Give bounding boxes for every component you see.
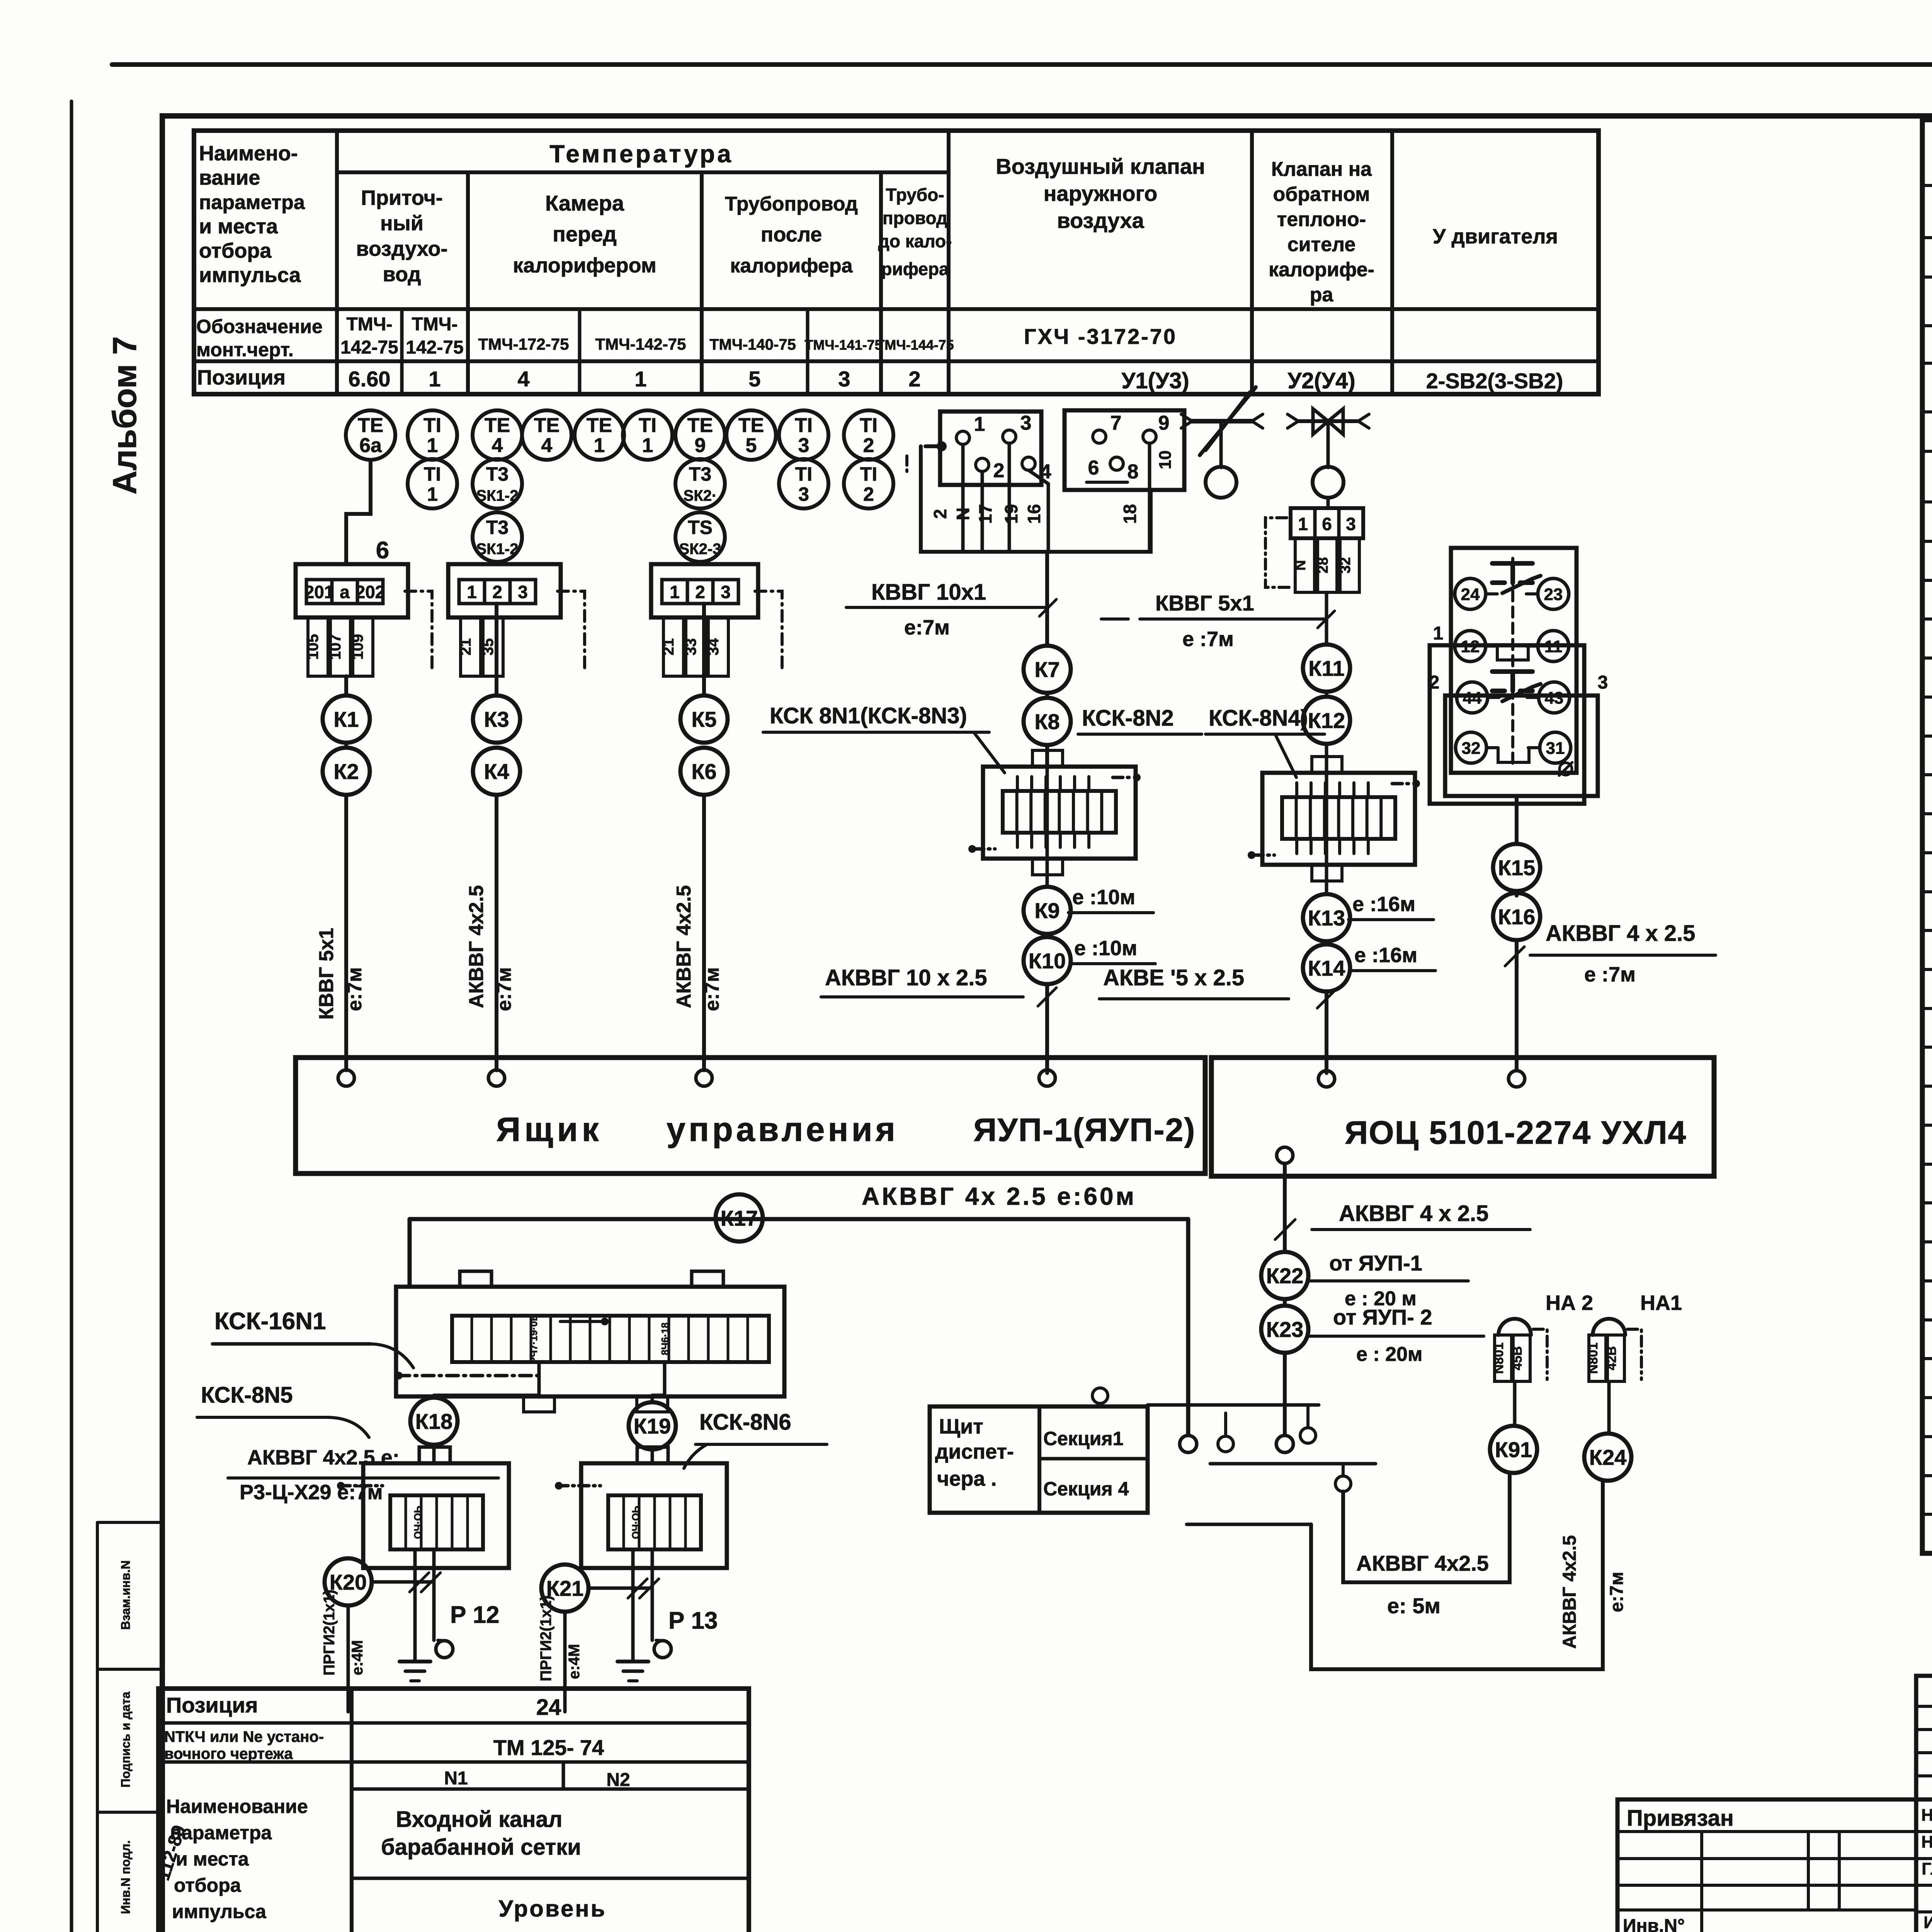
svg-text:SК1-2: SК1-2 — [476, 541, 519, 558]
svg-text:калорифером: калорифером — [513, 254, 656, 277]
svg-text:чера .: чера . — [937, 1467, 997, 1490]
connector lower bus outline — [907, 441, 1151, 646]
svg-text:ТМЧ-: ТМЧ- — [346, 314, 392, 335]
svg-text:21: 21 — [457, 638, 474, 656]
junction box KSK-8 N5 (drawing) — [337, 1447, 509, 1662]
svg-text:ТS: ТS — [688, 517, 713, 538]
svg-text:1: 1 — [429, 367, 440, 391]
svg-text:109: 109 — [349, 634, 366, 660]
ground (right) — [617, 1662, 648, 1681]
svg-text:43: 43 — [1545, 689, 1564, 707]
svg-text:Трубопровод: Трубопровод — [725, 193, 858, 215]
labels ot YaUP-1 e:20m — [1309, 1251, 1468, 1310]
svg-text:К2: К2 — [333, 759, 359, 784]
junction box KSK-8 N6 (drawing) — [555, 1447, 727, 1662]
signal lamp HA1 — [1586, 1291, 1682, 1434]
cable tag PRGI2(1x1) e:4m (right) — [537, 1595, 583, 1681]
svg-text:АКВВГ 10 х 2.5: АКВВГ 10 х 2.5 — [825, 965, 987, 990]
dispatcher board box — [930, 1406, 1148, 1513]
wire to K18 — [434, 1395, 539, 1463]
limit switch box — [1429, 548, 1608, 804]
label R 12 — [450, 1602, 500, 1628]
svg-text:201: 201 — [304, 582, 334, 602]
svg-text:АКВВГ 4 х 2.5: АКВВГ 4 х 2.5 — [1339, 1201, 1488, 1226]
junction box KSK-8 N1 (drawing) — [968, 745, 1141, 887]
svg-text:ТМЧ-144-75: ТМЧ-144-75 — [876, 337, 954, 353]
cable label AKVVG 10x2.5 — [821, 965, 1056, 1073]
svg-text:ТЕ: ТЕ — [485, 414, 510, 437]
svg-text:44: 44 — [1463, 689, 1482, 707]
svg-text:2: 2 — [993, 459, 1005, 482]
relay point K10 — [1024, 937, 1071, 984]
relay point K18 — [410, 1398, 457, 1445]
svg-text:Р 13: Р 13 — [668, 1607, 718, 1634]
svg-text:ПРГИ2(1х1): ПРГИ2(1х1) — [537, 1595, 554, 1681]
svg-text:12: 12 — [1461, 637, 1480, 656]
relay point K21 — [541, 1565, 659, 1712]
svg-text:ОЧ·ОЬ: ОЧ·ОЬ — [412, 1506, 423, 1539]
svg-text:Щит: Щит — [939, 1415, 983, 1438]
length labels e:10m — [1068, 886, 1155, 964]
svg-text:НА1: НА1 — [1640, 1291, 1682, 1315]
svg-text:Секция 4: Секция 4 — [1043, 1478, 1129, 1500]
svg-text:Камера: Камера — [545, 191, 624, 215]
svg-text:6а: 6а — [359, 434, 382, 457]
bus pin tags 2 N 17 19 16 18 — [930, 504, 1140, 524]
three-way valve U1 — [1181, 387, 1263, 498]
svg-text:N2: N2 — [606, 1770, 630, 1790]
svg-text:Альбом 7: Альбом 7 — [106, 336, 143, 494]
relay point K23 — [1261, 1306, 1308, 1353]
svg-text:К10: К10 — [1029, 949, 1066, 973]
svg-text:6: 6 — [376, 537, 389, 564]
svg-text:АКВВГ 4х2.5: АКВВГ 4х2.5 — [1560, 1535, 1580, 1649]
svg-text:9: 9 — [695, 434, 706, 457]
svg-text:е :7м: е :7м — [1182, 628, 1234, 651]
instrument ТI-1 — [623, 410, 672, 460]
svg-text:воздухо-: воздухо- — [356, 237, 448, 260]
svg-text:АКВЕ '5 х 2.5: АКВЕ '5 х 2.5 — [1103, 965, 1244, 990]
svg-text:8Ч6·18: 8Ч6·18 — [659, 1323, 671, 1355]
terminal box label 6 — [376, 537, 389, 564]
ground screw mark — [1559, 762, 1572, 776]
svg-text:воздуха: воздуха — [1057, 208, 1144, 233]
svg-text:ТI: ТI — [423, 414, 441, 437]
svg-text:НА 2: НА 2 — [1546, 1291, 1593, 1315]
svg-text:КВВГ 5х1: КВВГ 5х1 — [1155, 591, 1254, 615]
svg-text:рифера: рифера — [881, 259, 949, 279]
svg-text:РЧ7·19·0В: РЧ7·19·0В — [528, 1314, 539, 1364]
svg-text:калорифе-: калорифе- — [1269, 259, 1374, 281]
svg-text:Привязан: Привязан — [1627, 1806, 1734, 1831]
svg-text:ТЕ: ТЕ — [687, 414, 713, 437]
svg-text:У двигателя: У двигателя — [1433, 225, 1558, 248]
instrument ТЕ-4 — [522, 410, 571, 460]
svg-text:АКВВГ 4х2.5: АКВВГ 4х2.5 — [673, 885, 695, 1008]
svg-text:3: 3 — [518, 582, 528, 602]
svg-text:провод: провод — [883, 208, 947, 228]
svg-text:АКВВГ 4 х 2.5: АКВВГ 4 х 2.5 — [1546, 921, 1695, 946]
wire to K7 K8 through KSK-8 box — [1045, 693, 1049, 767]
instrument ТS SК2-3 (row3) — [675, 512, 725, 562]
instrument Т3 SК1-2 (row3) — [473, 512, 522, 562]
svg-text:К7: К7 — [1034, 657, 1060, 682]
junction box label KSK-8N6 — [684, 1410, 827, 1468]
svg-text:К24: К24 — [1589, 1445, 1626, 1469]
instrument ТI 1 (row2) — [408, 459, 457, 509]
parameters table data rows — [196, 314, 1563, 393]
junction box KSK-16 N1 — [395, 1271, 784, 1412]
svg-text:19: 19 — [1001, 504, 1021, 524]
svg-text:ТМЧ-172-75: ТМЧ-172-75 — [478, 335, 569, 353]
svg-text:Н.контр.: Н.контр. — [1921, 1833, 1932, 1852]
svg-text:32: 32 — [1337, 557, 1354, 573]
relay point K16 — [1493, 893, 1540, 940]
wire to K19 — [652, 1395, 665, 1463]
svg-text:ТЕ: ТЕ — [358, 414, 383, 437]
svg-text:е :10м: е :10м — [1072, 886, 1135, 909]
svg-text:N801: N801 — [1492, 1342, 1506, 1374]
svg-text:управления: управления — [667, 1110, 898, 1148]
svg-text:импульса: импульса — [199, 264, 301, 287]
svg-text:2: 2 — [930, 509, 950, 519]
svg-text:2: 2 — [863, 434, 874, 457]
svg-text:28: 28 — [1315, 557, 1331, 573]
contact step links — [1486, 646, 1540, 762]
svg-text:ТМ 125- 74: ТМ 125- 74 — [493, 1735, 604, 1760]
svg-text:К16: К16 — [1498, 905, 1535, 929]
wire to K11 K12 through KSK-8 right box — [1325, 592, 1328, 767]
svg-text:барабанной сетки: барабанной сетки — [381, 1835, 581, 1860]
wire AKVVG 4x2.5 from box3 to control box — [702, 604, 706, 1070]
parameters table — [194, 131, 1599, 394]
cable label AKVVG 4x2.5 (K22) — [1275, 1201, 1530, 1240]
multi-terminal connector box of air valve (right half) — [1065, 410, 1184, 490]
junction box KSK-8 N2 (drawing) — [1248, 744, 1420, 895]
svg-text:до кало-: до кало- — [878, 231, 952, 251]
svg-text:107: 107 — [327, 634, 344, 660]
svg-text:1: 1 — [642, 434, 653, 457]
svg-text:2: 2 — [863, 483, 874, 505]
svg-text:К23: К23 — [1266, 1317, 1303, 1342]
svg-text:5: 5 — [746, 434, 757, 457]
relay point K19 — [629, 1402, 676, 1449]
svg-text:е:7м: е:7м — [493, 967, 515, 1011]
junction box labels KSK-8N2 KSK-8N4 — [1078, 706, 1325, 777]
svg-text:2-SB2(3-SB2): 2-SB2(3-SB2) — [1426, 369, 1563, 393]
relay point K1 — [323, 696, 370, 743]
contact pin 44 — [1457, 682, 1499, 713]
instrument ТI 2 (row2) — [844, 459, 893, 509]
parameters table header texts — [199, 140, 1558, 306]
svg-text:Т3: Т3 — [486, 463, 509, 485]
svg-text:17: 17 — [975, 504, 995, 524]
svg-text:АКВВГ 4х2.5: АКВВГ 4х2.5 — [1356, 1551, 1489, 1575]
relay point K24 — [1584, 1434, 1631, 1481]
svg-text:2: 2 — [695, 582, 705, 602]
svg-text:от ЯУП- 2: от ЯУП- 2 — [1333, 1305, 1432, 1329]
svg-text:ОЧ·ОЬ: ОЧ·ОЬ — [630, 1506, 641, 1539]
cable label AKVVG 4x2.5 e:7m (third) — [673, 885, 723, 1011]
svg-text:105: 105 — [304, 634, 321, 660]
svg-text:и места: и места — [176, 1848, 249, 1870]
terminal box 6 (201-a-202) — [296, 564, 432, 676]
svg-text:К15: К15 — [1498, 855, 1535, 880]
svg-text:1: 1 — [670, 582, 680, 602]
svg-text:34: 34 — [705, 638, 722, 655]
svg-text:параметра: параметра — [199, 191, 305, 214]
svg-text:3: 3 — [721, 582, 731, 602]
control box YaUP-1 (YaUP-2) — [296, 1058, 1205, 1173]
svg-text:ЯОЦ 5101-2274 УХЛ4: ЯОЦ 5101-2274 УХЛ4 — [1345, 1114, 1687, 1151]
svg-text:Р 12: Р 12 — [450, 1602, 500, 1628]
svg-text:ЯУП-1(ЯУП-2): ЯУП-1(ЯУП-2) — [973, 1112, 1196, 1148]
svg-text:ТI: ТI — [795, 463, 812, 485]
bottom position table — [158, 1689, 749, 1932]
title block — [1617, 1670, 1932, 1932]
svg-text:АКВВГ 4х2.5: АКВВГ 4х2.5 — [465, 885, 488, 1008]
svg-text:Входной канал: Входной канал — [396, 1807, 562, 1832]
svg-text:1: 1 — [634, 367, 646, 391]
svg-text:3: 3 — [838, 367, 850, 391]
svg-text:21: 21 — [660, 638, 677, 656]
dispatcher board terminals — [1092, 1388, 1376, 1524]
svg-text:42В: 42В — [1604, 1346, 1619, 1370]
junction box label KSK8N1(KSK-8N3) — [763, 703, 1005, 773]
wire from YaOTs to dispatcher board — [1276, 1163, 1293, 1452]
svg-text:К19: К19 — [634, 1414, 671, 1438]
svg-text:наружного: наружного — [1044, 181, 1158, 206]
svg-text:Обозначение: Обозначение — [196, 316, 323, 337]
svg-text:и места: и места — [199, 215, 278, 238]
svg-text:вочного чертежа: вочного чертежа — [164, 1745, 293, 1762]
svg-text:е:7м: е:7м — [904, 616, 950, 639]
svg-text:К5: К5 — [691, 707, 716, 731]
svg-text:N: N — [953, 507, 973, 520]
svg-text:перед: перед — [553, 222, 617, 246]
svg-text:Нач.отд.: Нач.отд. — [1921, 1806, 1932, 1825]
svg-text:диспет-: диспет- — [935, 1440, 1014, 1463]
svg-text:1: 1 — [1298, 514, 1308, 534]
svg-text:У1(У3): У1(У3) — [1121, 368, 1189, 393]
terminal box 1-2-3 (21/35) — [448, 564, 585, 676]
contact pin 32 — [1456, 732, 1498, 763]
svg-text:8: 8 — [1128, 461, 1139, 483]
svg-text:Наимено-: Наимено- — [199, 142, 298, 165]
svg-text:е:7м: е:7м — [1607, 1572, 1627, 1612]
svg-text:ТI: ТI — [639, 414, 656, 437]
svg-text:Гл.спец.: Гл.спец. — [1922, 1859, 1932, 1878]
svg-text:7: 7 — [1111, 412, 1122, 434]
svg-text:Секция1: Секция1 — [1043, 1428, 1123, 1449]
relay point K22 — [1261, 1252, 1308, 1299]
svg-text:5: 5 — [748, 367, 760, 391]
relay point K20 — [325, 1558, 440, 1712]
wire e:7m U-link to K24 — [1311, 1481, 1627, 1669]
svg-text:1: 1 — [1433, 623, 1444, 644]
cable label AKVE 5x2.5 — [1099, 965, 1336, 1073]
cable label KVVG 5x1 e:7m (right) — [1101, 591, 1335, 651]
svg-text:Позиция: Позиция — [197, 366, 286, 389]
svg-text:Позиция: Позиция — [166, 1693, 258, 1717]
svg-text:К18: К18 — [415, 1409, 452, 1434]
svg-text:10: 10 — [1156, 451, 1175, 469]
svg-text:К3: К3 — [484, 707, 509, 731]
svg-text:1: 1 — [427, 483, 438, 505]
svg-text:Уровень: Уровень — [499, 1896, 607, 1922]
svg-text:1: 1 — [594, 434, 605, 457]
svg-text:ГХЧ -3172-70: ГХЧ -3172-70 — [1024, 324, 1177, 349]
svg-text:ТЕ: ТЕ — [587, 414, 612, 437]
svg-text:202: 202 — [355, 582, 385, 602]
svg-text:сителе: сителе — [1287, 233, 1356, 256]
svg-text:18: 18 — [1120, 504, 1140, 524]
relay point K14 — [1303, 944, 1350, 992]
svg-text:калорифера: калорифера — [730, 255, 853, 277]
svg-text:е :7м: е :7м — [1584, 963, 1636, 986]
svg-text:35: 35 — [480, 638, 497, 656]
instrument ТI-3 — [779, 410, 828, 460]
svg-text:SК1-2: SК1-2 — [476, 487, 519, 504]
svg-text:К9: К9 — [1034, 898, 1060, 923]
svg-text:вание: вание — [199, 166, 260, 189]
svg-text:23: 23 — [1544, 585, 1563, 604]
svg-text:К22: К22 — [1266, 1264, 1303, 1288]
svg-text:К12: К12 — [1308, 708, 1345, 733]
svg-text:SК2·: SК2· — [684, 487, 717, 504]
contact pin 24 — [1455, 578, 1497, 609]
instrument ТI 3 (row2) — [779, 459, 828, 509]
svg-text:4: 4 — [517, 367, 529, 391]
svg-text:К91: К91 — [1495, 1437, 1532, 1462]
svg-text:К17: К17 — [721, 1206, 758, 1230]
contact pin 11 — [1526, 631, 1569, 662]
svg-text:Инв.N подл.: Инв.N подл. — [119, 1840, 133, 1914]
svg-text:142-75: 142-75 — [340, 337, 398, 358]
svg-text:параметра: параметра — [170, 1822, 272, 1844]
svg-text:1: 1 — [427, 434, 438, 457]
svg-text:31: 31 — [1546, 739, 1565, 758]
svg-text:11: 11 — [1544, 637, 1563, 656]
svg-text:3: 3 — [1346, 514, 1356, 534]
svg-text:монт.черт.: монт.черт. — [196, 339, 294, 361]
svg-text:16: 16 — [1024, 504, 1044, 524]
svg-text:после: после — [761, 223, 822, 246]
svg-text:К1: К1 — [333, 707, 359, 731]
terminal connector 1-6-3 — [1265, 508, 1363, 592]
svg-text:ный: ный — [380, 212, 423, 235]
wire K17 AKVVG 4x2.5 e:60m — [410, 1219, 1197, 1452]
svg-text:2: 2 — [1429, 672, 1440, 693]
ground (left) — [400, 1662, 430, 1681]
svg-text:3: 3 — [798, 434, 810, 457]
svg-text:К11: К11 — [1308, 656, 1344, 680]
svg-text:ТЕ: ТЕ — [738, 414, 764, 437]
svg-text:КСК-8N4): КСК-8N4) — [1209, 706, 1308, 731]
label R 13 — [668, 1607, 718, 1634]
contact pin 31 — [1528, 732, 1571, 763]
svg-text:24: 24 — [536, 1695, 561, 1720]
junction box label KSK-16N1 — [213, 1308, 413, 1368]
svg-text:2: 2 — [908, 367, 920, 391]
cable label AKVVG 4x2.5 R3-Ts-X29 e:7m — [228, 1446, 498, 1504]
svg-text:32: 32 — [1462, 739, 1481, 758]
relay point K4 — [473, 748, 520, 795]
svg-text:У2(У4): У2(У4) — [1287, 368, 1355, 393]
svg-text:142-75: 142-75 — [406, 337, 463, 358]
svg-text:N: N — [1293, 560, 1309, 570]
svg-text:отбора: отбора — [174, 1874, 241, 1896]
svg-text:КСК-8N6: КСК-8N6 — [699, 1410, 791, 1435]
instrument ТЕ-6а — [346, 410, 395, 460]
svg-text:3: 3 — [1598, 672, 1608, 693]
svg-text:е:4М: е:4М — [349, 1640, 366, 1675]
relay point K17 — [716, 1194, 763, 1242]
length labels e:16m — [1349, 893, 1435, 971]
relay point K91 — [1490, 1426, 1537, 1473]
control box YaOTs 5101-2274 UHL4 — [1211, 1058, 1714, 1176]
relay point K11 — [1303, 645, 1350, 692]
svg-text:а: а — [340, 582, 350, 602]
cable label KVVG 10x1 e:7m — [846, 580, 1056, 639]
instrument ТI-1 — [408, 410, 457, 460]
svg-text:теплоно-: теплоно- — [1277, 208, 1366, 231]
cable tag PRGI2(1x1) e:4m (left) — [321, 1590, 366, 1675]
svg-text:КВВГ 10х1: КВВГ 10х1 — [871, 580, 986, 605]
svg-text:4: 4 — [541, 434, 553, 457]
svg-text:33: 33 — [682, 638, 699, 656]
svg-text:Подпись и дата: Подпись и дата — [119, 1692, 133, 1787]
contact pin 43 — [1527, 682, 1570, 713]
svg-text:2: 2 — [492, 582, 502, 602]
instrument ТЕ-5 — [726, 410, 776, 460]
svg-text:е:7м: е:7м — [701, 967, 723, 1011]
svg-text:N801: N801 — [1586, 1342, 1600, 1374]
svg-text:импульса: импульса — [172, 1901, 267, 1922]
svg-text:Инв.N°: Инв.N° — [1623, 1916, 1685, 1932]
svg-text:КСК-16N1: КСК-16N1 — [214, 1308, 326, 1335]
svg-text:К6: К6 — [691, 759, 716, 784]
svg-text:ТМЧ-142-75: ТМЧ-142-75 — [595, 335, 686, 353]
cable label KVVG 5x1 e:7m — [315, 928, 366, 1020]
svg-text:Приточ-: Приточ- — [361, 186, 443, 209]
instrument ТI-2 — [844, 410, 893, 460]
instrument ТЕ-4 — [473, 410, 522, 460]
svg-text:от ЯУП-1: от ЯУП-1 — [1329, 1251, 1422, 1275]
instrument Т3 SК2· (row2) — [675, 459, 725, 509]
left margin stamp strip — [97, 1522, 190, 1932]
relay point K3 — [473, 696, 520, 743]
multi-terminal connector box of air valve (left half) — [940, 412, 1051, 485]
svg-text:NТКЧ или Nе устано-: NТКЧ или Nе устано- — [164, 1728, 324, 1745]
svg-text:К14: К14 — [1308, 956, 1345, 980]
svg-text:ТI: ТI — [424, 463, 441, 485]
svg-text:9: 9 — [1158, 412, 1170, 434]
svg-text:Клапан на: Клапан на — [1271, 158, 1372, 180]
svg-text:6: 6 — [1322, 514, 1332, 534]
svg-text:АКВВГ 4х2.5 е:: АКВВГ 4х2.5 е: — [247, 1446, 400, 1469]
cable label AKVVG 4x2.5 e:7m (left) — [465, 885, 515, 1011]
signal lamp HA2 — [1492, 1291, 1593, 1426]
svg-text:Взам.инв.N: Взам.инв.N — [119, 1560, 133, 1630]
svg-text:1: 1 — [974, 413, 985, 435]
cable label AKVVG 4x2.5 e:60m — [862, 1182, 1136, 1210]
terminal box 1-2-3 (21/33/34) — [651, 564, 782, 676]
components list table — [1922, 120, 1932, 1553]
svg-text:е:4М: е:4М — [566, 1644, 583, 1679]
svg-text:е :16м: е :16м — [1352, 893, 1415, 916]
contact pin 12 — [1455, 631, 1497, 662]
